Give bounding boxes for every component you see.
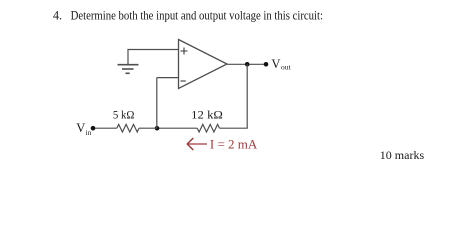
resistor R2 12 kOhm [197,124,219,132]
node: inverting junction [155,126,160,131]
wire: 5k to inverting junction [139,127,157,129]
wire: feedback drop from output node [246,64,248,128]
wire: op-amp output to Vout [227,63,266,65]
svg-text:V: V [76,121,85,135]
wire: bottom rail right segment [220,127,248,129]
svg-text:4.: 4. [53,8,62,22]
ground [118,65,139,74]
wire: non-inverting input to ground corner [128,50,179,65]
svg-text:5 kΩ: 5 kΩ [113,108,135,122]
svg-text:I = 2 mA: I = 2 mA [210,137,258,152]
label Vin [76,121,91,137]
svg-text:10 marks: 10 marks [380,148,425,162]
node: output junction [245,62,250,67]
wire: inverting input horizontal [157,77,179,79]
current arrow (red, pointing left) [187,138,207,149]
svg-text:V: V [271,57,280,71]
label Vout [271,57,291,72]
wire: inverting input riser [156,78,158,129]
svg-text:in: in [86,128,92,137]
svg-text:Determine both the input and o: Determine both the input and output volt… [71,8,323,22]
title: question text [53,8,323,22]
wire: bottom rail middle segment [157,127,197,129]
node: Vout terminal [264,62,269,67]
svg-text:12 kΩ: 12 kΩ [191,108,223,122]
node: Vin terminal [91,126,96,131]
svg-text:out: out [281,63,292,72]
op-amp U1 [179,40,228,89]
wire: Vin terminal to 5k [93,127,117,129]
resistor R1 5 kOhm [117,124,139,132]
